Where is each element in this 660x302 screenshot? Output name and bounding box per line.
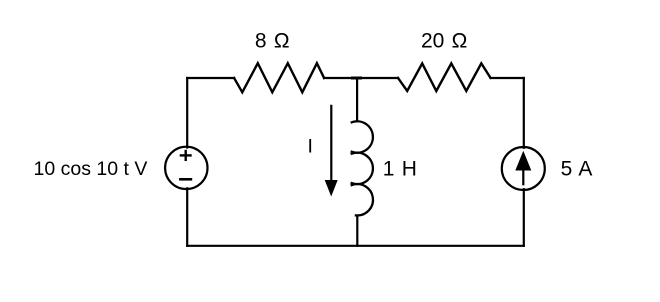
svg-text:10 cos 10 t V: 10 cos 10 t V — [34, 158, 148, 180]
svg-text:8 Ω: 8 Ω — [255, 29, 290, 52]
svg-text:1 H: 1 H — [383, 157, 417, 180]
svg-text:I: I — [307, 136, 312, 158]
svg-text:20 Ω: 20 Ω — [421, 29, 467, 52]
svg-text:5 A: 5 A — [561, 157, 593, 180]
